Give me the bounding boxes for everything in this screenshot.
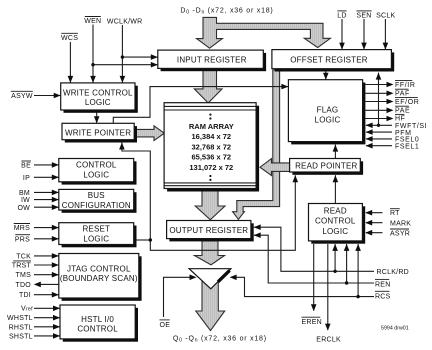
svg-text:IW: IW	[21, 197, 30, 204]
svg-text:LOGIC: LOGIC	[83, 235, 109, 244]
svg-text:131,072 x 72: 131,072 x 72	[189, 163, 233, 172]
wire RCS up into read control logic	[357, 244, 359, 297]
svg-text:LOGIC: LOGIC	[315, 116, 341, 125]
write control logic box	[61, 83, 138, 113]
svg-text:Q0 -Qn (x72, x36 or x18): Q0 -Qn (x72, x36 or x18)	[173, 335, 267, 343]
wire WHSTL into HSTL control	[34, 317, 60, 319]
wire TMS into JTAG control	[34, 274, 59, 276]
label WEN	[84, 17, 101, 26]
label RT	[390, 209, 400, 218]
junction FWFT/SI	[377, 124, 380, 127]
label PRS	[15, 235, 30, 244]
label OE	[160, 320, 171, 329]
label TRST	[12, 261, 32, 270]
svg-text:IP: IP	[23, 175, 30, 182]
label LD	[337, 11, 346, 20]
svg-text:PAF: PAF	[395, 91, 410, 98]
wire TRST into JTAG control	[34, 264, 59, 266]
label HF	[395, 114, 406, 122]
wire RCLK/RD net to output register	[254, 227, 374, 271]
HSTL I/O control box	[60, 305, 138, 342]
label REN	[375, 279, 391, 288]
bus input register to RAM gray arrow	[194, 71, 222, 104]
svg-text:ASYR: ASYR	[390, 231, 410, 238]
output buffer tri-state triangle	[189, 269, 231, 289]
wire RCLK/RD up into read control logic	[334, 244, 336, 271]
wire read pointer to flag logic	[334, 145, 336, 159]
svg-text:TDO: TDO	[15, 282, 31, 289]
wire PRS into reset logic	[34, 238, 59, 240]
wire flag input FSEL1	[366, 145, 392, 147]
svg-text:REN: REN	[375, 282, 391, 289]
wire FWFT/SI branch up to offset register	[378, 73, 380, 126]
wire BE into control logic	[34, 164, 59, 166]
svg-text:INPUT REGISTER: INPUT REGISTER	[177, 56, 247, 65]
svg-text:CONTROL: CONTROL	[315, 217, 356, 226]
svg-text:TCK: TCK	[16, 253, 31, 260]
wire flag output FF/IR	[365, 84, 388, 86]
bus read pointer to RAM gray arrow	[260, 159, 290, 176]
wire WEN to write control logic	[92, 25, 94, 83]
svg-text:EREN: EREN	[302, 319, 322, 326]
svg-text:BUS: BUS	[88, 191, 105, 200]
wire TDO out of JTAG control	[40, 283, 59, 285]
svg-text:READ: READ	[324, 206, 347, 215]
svg-text:WCLK/WR: WCLK/WR	[107, 19, 143, 26]
wire REN net to output register	[254, 235, 374, 283]
svg-text:CONTROL: CONTROL	[76, 161, 117, 170]
svg-text:BM: BM	[19, 190, 30, 197]
svg-text:ASYW: ASYW	[11, 93, 33, 100]
svg-text:RCLK/RD: RCLK/RD	[377, 269, 409, 276]
svg-text:FSEL1: FSEL1	[395, 143, 419, 150]
read control logic box	[309, 204, 366, 244]
label WCS	[61, 33, 78, 42]
wire REN up into read control logic	[346, 244, 348, 283]
wire ERCLK output	[327, 244, 329, 330]
junction RCS	[356, 295, 359, 298]
svg-text:WRITE POINTER: WRITE POINTER	[65, 128, 131, 137]
svg-text:RT: RT	[390, 210, 400, 217]
wire flag output EF/OR	[365, 101, 388, 103]
wire ASYW to write control logic	[34, 95, 61, 97]
label MRS	[14, 224, 30, 233]
svg-text:JTAG CONTROL: JTAG CONTROL	[67, 265, 131, 274]
wire EREN output	[313, 244, 315, 311]
label BE	[21, 161, 31, 170]
wire read control logic to read pointer	[334, 175, 336, 203]
svg-text:5994 drw01: 5994 drw01	[381, 325, 409, 331]
wire reset logic branch	[137, 239, 151, 241]
wire RCS net to output buffer	[235, 277, 374, 296]
svg-text:TDI: TDI	[19, 292, 31, 299]
label FF/IR	[395, 81, 416, 89]
wire flag output HF	[365, 118, 388, 120]
svg-text:SEN: SEN	[356, 13, 371, 20]
wire MARK into read control logic	[366, 222, 383, 224]
svg-text:WHSTL: WHSTL	[7, 315, 33, 322]
output register box	[167, 221, 254, 242]
bus write pointer to RAM gray arrow	[135, 126, 165, 141]
svg-text:WEN: WEN	[84, 18, 101, 25]
wire flag input PFM	[366, 131, 392, 133]
RAM array box	[164, 103, 259, 192]
label ASYW	[11, 91, 33, 100]
wire flag input FWFT/SI	[366, 124, 392, 126]
svg-text:LOGIC: LOGIC	[322, 227, 348, 236]
wire WCS to write control logic	[69, 42, 71, 83]
wire RT into read control logic	[366, 212, 383, 214]
wire OW into bus configuration	[34, 206, 59, 208]
svg-text:32,768 x 72: 32,768 x 72	[191, 142, 231, 151]
label EREN	[302, 317, 322, 326]
junction REN	[345, 281, 348, 284]
label EF/OR	[395, 98, 419, 106]
junction reset net	[149, 238, 152, 241]
control logic box	[59, 159, 137, 185]
svg-text:PRS: PRS	[15, 236, 30, 243]
wire flag output PAE	[365, 109, 388, 111]
wire SCLK to offset register	[384, 19, 386, 50]
svg-text:OE: OE	[160, 322, 171, 329]
wire MRS into reset logic	[34, 227, 59, 229]
svg-text:EF/OR: EF/OR	[395, 99, 419, 106]
svg-text:CONFIGURATION: CONFIGURATION	[62, 201, 131, 210]
svg-text:HSTL I/0: HSTL I/0	[81, 315, 114, 324]
svg-text:WRITE CONTROL: WRITE CONTROL	[63, 89, 133, 98]
reset logic box	[59, 223, 137, 248]
svg-text:CONTROL: CONTROL	[77, 324, 118, 333]
label ASYR	[390, 229, 410, 238]
wire write control logic to write pointer	[96, 110, 98, 123]
svg-text:RESET: RESET	[82, 224, 110, 233]
svg-text:RHSTL: RHSTL	[9, 324, 33, 331]
svg-text:16,384 x 72: 16,384 x 72	[191, 132, 231, 141]
svg-text:LOGIC: LOGIC	[83, 171, 109, 180]
svg-text:BE: BE	[21, 163, 31, 170]
label RCS	[375, 291, 391, 300]
bus output register to output buffer gray arrow	[195, 241, 225, 265]
wire WCLK/WR to write control logic	[121, 25, 123, 83]
write pointer box	[62, 123, 137, 142]
wire WEN branch to input register	[93, 64, 158, 66]
wire offset register to flag logic	[325, 70, 327, 80]
wire flag input FSEL0	[366, 138, 392, 140]
wire WCLK branch to input register	[122, 56, 157, 58]
input register box	[158, 50, 266, 71]
junction WEN branch	[91, 63, 94, 66]
svg-text:OUTPUT REGISTER: OUTPUT REGISTER	[169, 226, 248, 235]
wire SHSTL into HSTL control	[34, 335, 60, 337]
svg-text:TRST: TRST	[12, 263, 32, 270]
label PAE	[395, 106, 410, 114]
wire reset net write pointer to read pointer	[122, 143, 295, 251]
read pointer box	[290, 159, 363, 175]
offset register box	[272, 50, 394, 72]
svg-text:MRS: MRS	[14, 225, 30, 232]
svg-text:HF: HF	[395, 116, 406, 123]
svg-text:OW: OW	[17, 205, 30, 212]
bus RAM to output register gray arrow	[195, 191, 225, 220]
junction WCLK branch	[121, 55, 124, 58]
junction RCLK/RD	[333, 270, 336, 273]
svg-text:RCS: RCS	[375, 293, 391, 300]
bus configuration box	[59, 189, 137, 212]
label PAF	[395, 89, 410, 97]
svg-text:RAM ARRAY: RAM ARRAY	[189, 122, 234, 131]
svg-text:LD: LD	[337, 13, 346, 20]
svg-text:READ POINTER: READ POINTER	[295, 162, 357, 171]
svg-text:WCS: WCS	[61, 35, 78, 42]
wire IP into control logic	[34, 176, 59, 178]
wire TDI into JTAG control	[34, 294, 59, 296]
svg-text:SHSTL: SHSTL	[9, 333, 33, 340]
wire Vref into HSTL control	[34, 307, 60, 309]
wire BM into bus configuration	[34, 191, 59, 193]
wire IW into bus configuration	[34, 199, 59, 201]
svg-text:LOGIC: LOGIC	[85, 98, 111, 107]
wire TCK into JTAG control	[34, 255, 59, 257]
wire OE to output buffer	[164, 277, 192, 317]
svg-text:Vref: Vref	[21, 306, 33, 313]
svg-text:PAE: PAE	[395, 108, 410, 115]
wire ASYR into read control logic	[366, 232, 383, 234]
svg-text:D0 -Dn (x72, x36 or x18): D0 -Dn (x72, x36 or x18)	[180, 7, 273, 15]
svg-text:ERCLK: ERCLK	[316, 336, 341, 343]
wire RHSTL into HSTL control	[34, 326, 60, 328]
svg-text:FF/IR: FF/IR	[395, 82, 416, 89]
bus D0-Dn gray arrow into INPUT REGISTER and OFFSET REGISTER	[197, 17, 331, 48]
JTAG control box	[59, 254, 142, 301]
svg-text:TMS: TMS	[15, 272, 31, 279]
wire write pointer to flag logic	[113, 87, 288, 124]
label SEN	[356, 11, 371, 20]
wire LD to offset register	[341, 19, 343, 50]
wire SEN to offset register	[363, 19, 365, 50]
bus output buffer to Q0-Qn gray arrow	[196, 269, 225, 331]
svg-text:MARK: MARK	[390, 220, 411, 227]
wire flag output PAF	[365, 92, 388, 94]
svg-text:FLAG: FLAG	[317, 105, 339, 114]
svg-text:SCLK: SCLK	[376, 13, 395, 20]
flag logic box	[288, 80, 365, 145]
bus offset register down to output register gray band	[233, 70, 280, 219]
svg-text:OFFSET REGISTER: OFFSET REGISTER	[290, 56, 368, 65]
svg-text:(BOUNDARY SCAN): (BOUNDARY SCAN)	[60, 274, 138, 283]
svg-text:65,536 x 72: 65,536 x 72	[191, 153, 231, 162]
